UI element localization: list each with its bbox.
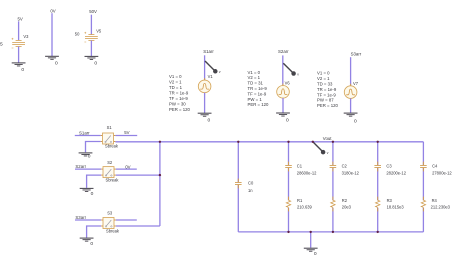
resistor R1	[286, 197, 291, 212]
svg-text:0: 0	[90, 241, 93, 247]
junction	[377, 141, 379, 143]
svg-text:3180e-12: 3180e-12	[342, 170, 360, 175]
junction	[377, 231, 379, 233]
junction	[159, 141, 161, 143]
wire	[51, 13, 53, 56]
pulse source V6	[277, 84, 290, 101]
svg-text:C0: C0	[248, 180, 254, 185]
svg-text:0: 0	[354, 118, 357, 124]
wire	[350, 57, 352, 86]
wire branch 4	[422, 142, 424, 232]
svg-text:5: 5	[0, 41, 3, 47]
wire	[90, 41, 92, 57]
resistor R2	[330, 197, 335, 212]
svg-text:V7: V7	[353, 81, 359, 86]
wire	[86, 142, 101, 153]
wire	[282, 98, 284, 113]
svg-text:R2: R2	[342, 198, 348, 203]
svg-text:S1arr: S1arr	[79, 130, 90, 135]
svg-text:210.639: 210.639	[297, 205, 313, 210]
capacitor C1	[285, 162, 292, 172]
svg-text:0V: 0V	[50, 9, 55, 14]
svg-text:212.230e3: 212.230e3	[431, 205, 451, 210]
junction	[312, 141, 314, 143]
ground	[344, 113, 358, 116]
wire branch 2	[332, 142, 334, 232]
voltage source V3	[12, 38, 25, 48]
ground	[85, 56, 99, 59]
svg-text:V5: V5	[96, 29, 102, 34]
svg-text:C3: C3	[386, 163, 392, 168]
resistor R3	[375, 197, 380, 212]
capacitor C4	[420, 162, 427, 172]
voltage marker	[283, 63, 299, 76]
wire	[115, 141, 159, 143]
svg-text:S2arr: S2arr	[75, 164, 86, 169]
svg-text:S1arr: S1arr	[203, 49, 214, 54]
svg-text:0: 0	[91, 191, 94, 197]
voltage marker	[205, 61, 221, 74]
svg-text:R1: R1	[297, 198, 303, 203]
svg-text:0: 0	[314, 251, 317, 257]
junction	[287, 141, 289, 143]
svg-text:V1 = 0V2 = 1TD = 31TR = 1e-9TF: V1 = 0V2 = 1TD = 31TR = 1e-9TF = 1e-9PW …	[248, 70, 270, 107]
ground	[276, 113, 290, 116]
junction	[287, 231, 289, 233]
junction	[237, 141, 239, 143]
wire	[115, 135, 137, 137]
svg-text:50: 50	[75, 31, 80, 36]
wire	[116, 219, 137, 221]
ground	[45, 56, 59, 59]
svg-text:0: 0	[55, 61, 58, 67]
svg-text:C2: C2	[342, 163, 348, 168]
svg-text:V6: V6	[285, 81, 291, 86]
svg-text:C4: C4	[432, 163, 438, 168]
ground	[80, 188, 94, 191]
capacitor C3	[374, 162, 381, 172]
wire C0 branch	[237, 142, 239, 232]
wire branch 3	[377, 142, 379, 232]
junction	[332, 141, 334, 143]
capacitor C0	[235, 179, 242, 189]
svg-text:27800e-12: 27800e-12	[432, 170, 452, 175]
ground	[80, 238, 94, 241]
capacitor C2	[330, 162, 337, 172]
ground	[79, 153, 93, 156]
switch U2 Sbreak	[101, 167, 116, 178]
svg-text:V3: V3	[23, 34, 29, 39]
svg-text:S2arr: S2arr	[278, 49, 289, 54]
wire	[87, 226, 102, 238]
wire	[90, 15, 92, 35]
svg-text:28200e-12: 28200e-12	[386, 170, 406, 175]
svg-text:18.815e3: 18.815e3	[387, 205, 405, 210]
wire	[350, 98, 352, 113]
switch U3 Sbreak	[101, 218, 116, 229]
wire	[204, 55, 206, 80]
voltage marker Vout	[313, 142, 329, 155]
svg-text:5V: 5V	[18, 16, 23, 21]
svg-text:V1 = 0V2 = 1TD = 1TR = 1e-9TF: V1 = 0V2 = 1TD = 1TR = 1e-9TF = 1e-9PW =…	[169, 74, 191, 112]
wire ground stem	[310, 232, 312, 248]
svg-text:V1: V1	[208, 74, 214, 79]
ground	[12, 63, 26, 66]
wire bus vertical	[159, 142, 161, 226]
junction	[310, 231, 312, 233]
voltage source V5	[84, 32, 97, 42]
resistor R4	[421, 197, 426, 212]
svg-text:C1: C1	[297, 163, 303, 168]
svg-text:50V: 50V	[89, 9, 97, 14]
svg-text:28600e-12: 28600e-12	[297, 170, 317, 175]
svg-text:S2: S2	[107, 160, 113, 165]
svg-text:S3: S3	[107, 211, 113, 216]
svg-text:Vout: Vout	[323, 136, 332, 141]
wire	[75, 219, 101, 221]
svg-text:0: 0	[21, 67, 24, 73]
wire	[116, 168, 137, 170]
svg-text:Sbreak: Sbreak	[105, 143, 119, 148]
svg-text:1n: 1n	[248, 188, 253, 193]
wire	[75, 168, 101, 170]
pulse source V1	[198, 78, 211, 95]
svg-text:0: 0	[208, 118, 211, 124]
svg-text:0: 0	[94, 61, 97, 67]
wire ladder bottom	[238, 231, 423, 233]
svg-text:R3: R3	[387, 198, 393, 203]
svg-text:R4: R4	[432, 198, 438, 203]
junction	[332, 231, 334, 233]
svg-text:V1 = 0V2 = 1TD = 33TR = 1e-9TF: V1 = 0V2 = 1TD = 33TR = 1e-9TF = 1e-9PW …	[317, 71, 339, 108]
wire	[116, 174, 160, 176]
svg-text:S3arr: S3arr	[351, 51, 362, 56]
wire ladder top	[160, 141, 424, 143]
pulse source V7	[344, 84, 357, 101]
wire	[116, 225, 160, 227]
wire	[18, 21, 20, 40]
ground	[198, 113, 212, 116]
wire	[204, 93, 206, 114]
wire	[87, 175, 102, 188]
svg-text:Sbreak: Sbreak	[106, 229, 120, 234]
switch U1 Sbreak	[101, 133, 116, 144]
svg-text:5V: 5V	[124, 130, 129, 135]
wire	[75, 135, 101, 137]
svg-text:0: 0	[286, 117, 289, 123]
wire	[282, 55, 284, 85]
wire	[18, 47, 20, 63]
svg-text:0: 0	[88, 154, 91, 160]
svg-text:Sbreak: Sbreak	[106, 178, 120, 183]
ground	[304, 248, 318, 251]
svg-text:S1: S1	[107, 125, 113, 130]
svg-text:20e3: 20e3	[342, 205, 352, 210]
wire branch 1	[288, 142, 290, 232]
junction	[159, 174, 161, 176]
